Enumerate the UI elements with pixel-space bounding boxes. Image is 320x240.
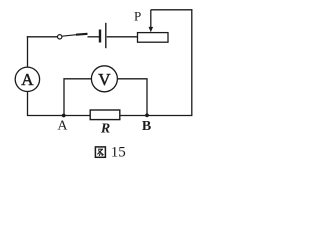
rheostat slider arrow <box>149 10 154 33</box>
svg-text:A: A <box>21 70 34 89</box>
svg-text:R: R <box>100 122 110 137</box>
wire bottom horizontal <box>27 115 193 117</box>
svg-text:P: P <box>134 9 141 24</box>
battery positive plate (long thin) <box>105 23 107 48</box>
wire left vertical upper (corner to ammeter) <box>27 36 29 67</box>
caption glyph 图 (drawn) <box>95 147 105 157</box>
wire top-left horizontal segment <box>27 36 58 38</box>
voltmeter V <box>91 66 117 92</box>
switch lever <box>62 34 87 36</box>
svg-text:15: 15 <box>111 145 126 161</box>
wire node A riser to voltmeter <box>64 79 92 116</box>
wire voltmeter to node B riser <box>117 79 147 116</box>
node B junction dot <box>145 113 149 117</box>
wire switch-to-battery <box>88 36 100 38</box>
battery negative plate (short thick) <box>99 30 101 43</box>
rheostat P body <box>138 33 169 43</box>
node A junction dot <box>62 114 66 118</box>
svg-text:A: A <box>57 119 68 134</box>
wire slider-to-top-right corner <box>151 9 193 11</box>
wire right vertical <box>191 9 193 115</box>
switch terminal circle <box>58 35 62 39</box>
wire left vertical lower (ammeter to bottom corner) <box>27 92 29 116</box>
ammeter A <box>15 67 39 91</box>
resistor R body <box>90 110 120 120</box>
svg-text:V: V <box>98 70 111 89</box>
wire battery-to-rheostat <box>107 36 138 38</box>
svg-text:B: B <box>142 119 151 134</box>
